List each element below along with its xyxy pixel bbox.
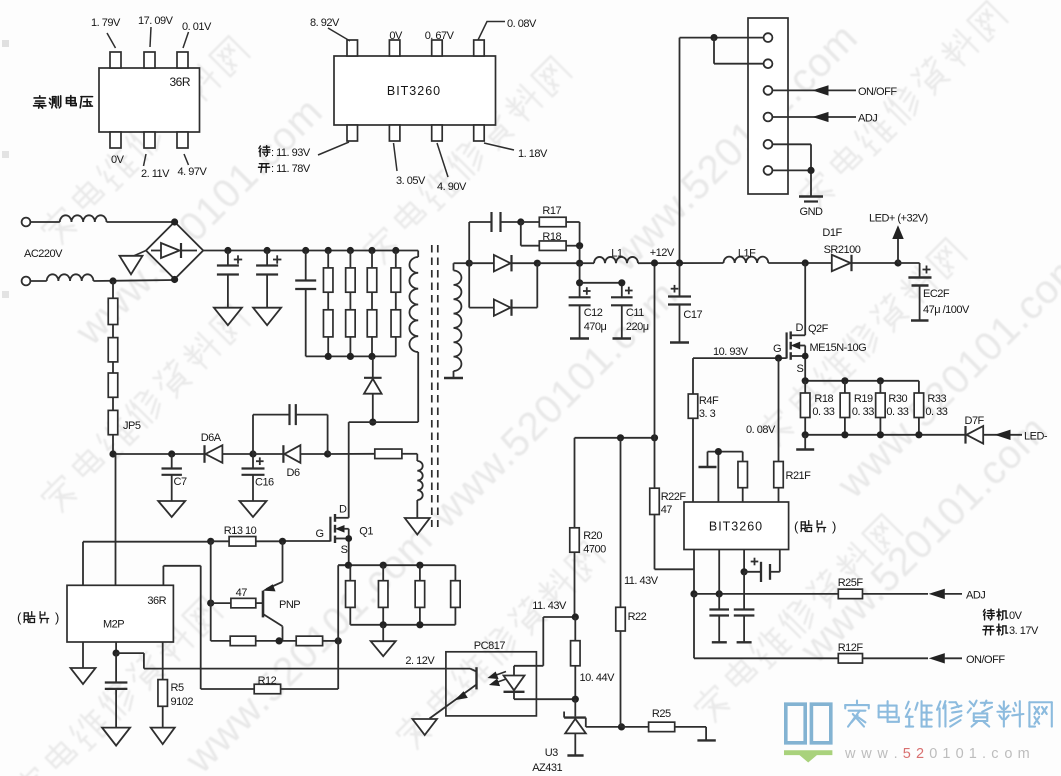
connector pin 6 xyxy=(764,166,773,175)
wire snubber to Q1 drain xyxy=(349,422,373,518)
label R18b xyxy=(814,393,833,405)
svg-text:3. 3: 3. 3 xyxy=(699,408,716,420)
wire r18 to rail xyxy=(579,246,581,264)
junction rail cap1 xyxy=(224,247,231,254)
AC terminal bottom xyxy=(22,277,31,286)
capacitor snub sec xyxy=(469,212,521,263)
junction rail rcol4 xyxy=(392,247,399,254)
svg-text:D6A: D6A xyxy=(201,432,222,444)
svg-text:R19: R19 xyxy=(854,393,873,405)
svg-text:S: S xyxy=(797,363,804,375)
label R21F xyxy=(786,470,812,482)
diode D6 xyxy=(253,445,300,463)
wire M2P pin3 dogleg to R12 xyxy=(163,566,200,689)
svg-text:36R: 36R xyxy=(169,75,190,89)
svg-text:m: m xyxy=(1018,746,1030,762)
svg-text:R13 10: R13 10 xyxy=(224,525,257,537)
resistor primary bank col4 top xyxy=(391,251,401,293)
label R22 xyxy=(628,611,647,623)
junction bridge top xyxy=(171,218,178,225)
voltage label 4.97V xyxy=(178,154,208,178)
label R20 xyxy=(583,530,602,542)
resistor R22 xyxy=(616,438,626,727)
junction bankq1 bot3 xyxy=(416,621,423,628)
bridge rectifier BD1 xyxy=(146,222,203,279)
junction ref node xyxy=(618,723,625,730)
diode D1F SR2100 xyxy=(832,255,898,271)
svg-text:4. 90V: 4. 90V xyxy=(437,181,467,193)
svg-text:: 11. 93V: : 11. 93V xyxy=(271,147,311,159)
svg-text:0. 01V: 0. 01V xyxy=(182,21,212,33)
svg-text:10. 93V: 10. 93V xyxy=(713,346,749,358)
wire +12V rail xyxy=(638,262,724,264)
junction sense t2 xyxy=(841,377,848,384)
resistor primary bank col3 bottom xyxy=(367,292,377,356)
junction vcc jp5 xyxy=(109,450,116,457)
label R17 xyxy=(542,205,561,217)
resistor primary bank col1 top xyxy=(323,251,333,293)
wire connector pin5 to gnd xyxy=(772,144,811,170)
ground M2P xyxy=(71,668,96,684)
label AC220V xyxy=(24,248,63,260)
ground secondary winding xyxy=(444,371,463,378)
pin BIT3260 bottom1 xyxy=(347,125,358,141)
label Q1 D xyxy=(339,504,347,516)
svg-text:ADJ: ADJ xyxy=(858,113,877,125)
voltage label 1.79V xyxy=(91,17,121,48)
resistor R22F xyxy=(650,438,694,570)
resistor JP5 xyxy=(108,397,118,454)
transformer T1 primary winding xyxy=(409,257,418,352)
resistor JP5 column r1 xyxy=(108,281,118,325)
label 10.93V xyxy=(713,346,749,358)
shunt regulator U3 AZ431 xyxy=(564,699,586,755)
logo url www.520101.com xyxy=(844,746,1030,762)
svg-text:R22: R22 xyxy=(628,611,647,623)
junction fb r22 xyxy=(617,434,624,441)
wire LED- output xyxy=(983,430,1022,439)
optocoupler PC817 box xyxy=(446,652,537,716)
svg-text:0. 33: 0. 33 xyxy=(812,406,834,418)
svg-text:.: . xyxy=(982,746,986,762)
label D1F xyxy=(822,227,842,239)
label AZ431 xyxy=(532,762,562,774)
label L1 xyxy=(611,248,623,260)
wire connector pin2 xyxy=(714,38,764,64)
label C16 xyxy=(255,477,274,489)
junction sense t3 xyxy=(877,377,884,384)
pin BIT3260 top1 xyxy=(347,40,358,56)
resistor R12F xyxy=(838,654,928,664)
label measured-voltage 实测电压 xyxy=(34,96,93,109)
wire M2P gnd pin xyxy=(82,642,84,668)
svg-text:2. 11V: 2. 11V xyxy=(141,168,170,180)
svg-text:+12V: +12V xyxy=(650,247,675,259)
svg-text:470μ: 470μ xyxy=(584,321,607,333)
label 3.3 xyxy=(699,408,716,420)
capacitor EC2F xyxy=(898,263,932,321)
svg-text:GND: GND xyxy=(800,206,824,218)
junction bank bottom2 xyxy=(347,353,354,360)
svg-text:D: D xyxy=(339,504,347,516)
junction sense s xyxy=(802,377,809,384)
svg-text:Q2F: Q2F xyxy=(808,323,829,335)
svg-text:R21F: R21F xyxy=(786,470,812,482)
ground bulk C-b xyxy=(253,308,281,326)
wire rect to main node xyxy=(537,262,579,264)
label C7 xyxy=(174,476,187,488)
svg-text:ADJ: ADJ xyxy=(966,590,985,602)
label R25F xyxy=(838,577,864,589)
svg-text:0. 33: 0. 33 xyxy=(925,406,947,418)
transistor Q2F mosfet xyxy=(787,263,809,381)
junction r17r18 right xyxy=(576,242,583,249)
svg-text:36R: 36R xyxy=(147,595,166,607)
logo book icon xyxy=(786,704,831,743)
ground bulk C-a xyxy=(214,308,242,326)
label 4700 xyxy=(583,544,606,556)
junction c12 top xyxy=(576,279,583,286)
svg-text:M2P: M2P xyxy=(103,619,124,631)
label 47f xyxy=(661,504,673,516)
resistor fb mid xyxy=(571,617,581,699)
wire M2P pin2 to vcc xyxy=(115,454,117,585)
transistor Q1 mosfet xyxy=(330,514,352,565)
page edge marks xyxy=(2,40,9,298)
voltage label 0.67V xyxy=(425,30,455,42)
logo green swoosh xyxy=(784,750,832,762)
junction bankq1 top2 xyxy=(380,562,387,569)
svg-text:9102: 9102 xyxy=(171,696,194,708)
label 11.43V right xyxy=(624,575,659,587)
svg-text:4700: 4700 xyxy=(583,544,606,556)
capacitor snubber bank xyxy=(295,251,316,357)
svg-text:0V: 0V xyxy=(1009,610,1023,622)
capacitor snubber across D6 xyxy=(253,404,328,454)
svg-text:3. 17V: 3. 17V xyxy=(1009,625,1039,637)
resistor R17 xyxy=(521,217,580,245)
svg-text:LED-: LED- xyxy=(1024,431,1048,443)
label 47u 100V xyxy=(923,304,970,316)
wire M2P pin1 to R13 xyxy=(83,542,211,586)
junction source S xyxy=(345,562,352,569)
junction source-feedback node xyxy=(335,637,342,644)
voltage label 0V pin2 xyxy=(389,30,403,42)
capacitor C11 xyxy=(580,283,633,339)
label R22F xyxy=(661,491,687,503)
label R30 xyxy=(888,393,907,405)
label D6 xyxy=(287,467,300,479)
junction rail snubcap xyxy=(302,247,309,254)
wire connector pin1 to +12V rail xyxy=(680,38,764,263)
wire pin2 top dogleg xyxy=(708,452,743,502)
label smd 贴片 left xyxy=(17,610,59,625)
arrow ONOFF out xyxy=(930,654,962,663)
junction sense b3 xyxy=(877,431,884,438)
svg-text:R25: R25 xyxy=(652,708,671,720)
voltage label 4.90V xyxy=(437,143,467,193)
junction c11 top xyxy=(618,279,625,286)
capacitor elec pinB3-4 xyxy=(744,550,780,583)
voltage label 3.05V xyxy=(394,143,426,187)
IC BIT3260 name xyxy=(387,84,441,98)
svg-text:17. 09V: 17. 09V xyxy=(138,15,174,27)
wire sense top rail xyxy=(805,380,919,382)
inductor L1F xyxy=(724,257,769,263)
label 11.43V mid xyxy=(532,600,567,612)
wire vcc to aux resistor xyxy=(328,453,375,455)
label smd 贴片 right xyxy=(794,519,836,534)
label 2.12V xyxy=(405,655,435,667)
connector CN1 body xyxy=(748,18,788,194)
connector pin 1 xyxy=(764,33,773,42)
svg-text:): ) xyxy=(55,610,59,625)
label R19 xyxy=(854,393,873,405)
label GND xyxy=(800,206,824,218)
junction led+ node xyxy=(894,259,901,266)
wire vcc rail xyxy=(113,453,205,455)
junction snubber node xyxy=(369,419,376,426)
svg-text:1. 79V: 1. 79V xyxy=(91,17,121,29)
connector pin 4 xyxy=(764,113,773,122)
wire gate network left vertical xyxy=(211,541,231,641)
wire secondary rail xyxy=(454,262,470,264)
svg-text:BIT3260: BIT3260 xyxy=(709,520,763,534)
wire source bank bottom rail xyxy=(350,624,455,626)
svg-text:10. 44V: 10. 44V xyxy=(580,672,616,684)
label M2P xyxy=(103,619,124,631)
diode D7F xyxy=(966,426,984,444)
svg-text:1: 1 xyxy=(969,746,977,762)
label D6A xyxy=(201,432,222,444)
svg-text:ON/OFF: ON/OFF xyxy=(966,654,1005,666)
label Q2F G xyxy=(773,343,781,355)
label ADJ xyxy=(858,113,877,125)
junction adj node xyxy=(690,590,697,597)
ground C16 xyxy=(240,501,267,517)
label Q2F D xyxy=(796,322,804,334)
wire fb to +12V rail xyxy=(654,263,656,438)
svg-text:L1: L1 xyxy=(611,248,623,260)
junction R13 right xyxy=(279,538,286,545)
resistor primary bank col3 top xyxy=(367,251,377,293)
svg-text:47: 47 xyxy=(661,504,673,516)
resistor R5 xyxy=(158,642,168,728)
junction sense b2 xyxy=(841,431,848,438)
resistor R25F xyxy=(838,589,928,599)
ground C7 xyxy=(158,501,185,517)
label ON/OFF xyxy=(858,86,897,98)
label 470u xyxy=(584,321,607,333)
svg-text:EC2F: EC2F xyxy=(923,288,950,300)
svg-text:11. 43V: 11. 43V xyxy=(624,575,659,587)
svg-text:0. 33: 0. 33 xyxy=(886,406,908,418)
junction R13 left xyxy=(207,538,214,545)
svg-text:JP5: JP5 xyxy=(123,420,141,432)
label R5 xyxy=(171,682,184,694)
resistor primary bank col1 bottom xyxy=(323,292,333,356)
connector pin 2 xyxy=(764,59,773,68)
wire snubber to primary winding bottom xyxy=(373,352,418,422)
junction az431 node xyxy=(572,696,579,703)
svg-text:Q1: Q1 xyxy=(359,526,373,538)
label 36R on M2P xyxy=(147,595,166,607)
label R13 10 xyxy=(224,525,257,537)
resistor 47 base xyxy=(211,598,263,608)
transformer T1 secondary winding xyxy=(454,263,462,371)
svg-text:C7: C7 xyxy=(174,476,187,488)
junction PNP collector xyxy=(276,637,283,644)
resistor R18 0.33 xyxy=(800,381,810,435)
label R12 xyxy=(258,675,277,687)
transistor PNP xyxy=(263,541,283,641)
AC terminal top xyxy=(22,218,31,227)
wire AZ431 ref xyxy=(586,718,622,727)
inductor L1 xyxy=(580,257,638,263)
svg-text:L1F: L1F xyxy=(738,248,756,260)
pin BIT3260 bottom4 xyxy=(474,125,485,141)
svg-text:R12: R12 xyxy=(258,675,277,687)
ground R5 xyxy=(151,728,175,745)
label R19 val xyxy=(852,406,874,418)
junction vcc c16 xyxy=(249,450,256,457)
label R33 xyxy=(927,393,946,405)
junction rect out xyxy=(534,260,541,267)
junction bankq1 bot2 xyxy=(380,621,387,628)
junction rail rcol1 xyxy=(325,247,332,254)
pin BIT3260 top4 xyxy=(474,40,485,56)
capacitor filter F2 xyxy=(734,572,755,643)
junction rail cap2 xyxy=(264,247,271,254)
voltage label 17.09V xyxy=(138,15,174,47)
diode snubber clamp xyxy=(364,356,382,422)
resistor pin3 top xyxy=(738,452,748,502)
junction rail rcol2 xyxy=(347,247,354,254)
capacitor C17 xyxy=(668,263,691,343)
label LED+ +32V xyxy=(869,213,928,225)
svg-text:D1F: D1F xyxy=(822,227,842,239)
svg-text:G: G xyxy=(773,343,781,355)
label EC2F xyxy=(923,288,950,300)
ground source bank xyxy=(371,625,396,656)
voltage label 0V xyxy=(111,154,125,166)
wire M2P pinB node xyxy=(115,642,117,653)
opto light arrows xyxy=(489,672,508,686)
junction pinB2 node xyxy=(716,590,723,597)
diode rectifier top xyxy=(469,255,537,271)
resistor lower row a xyxy=(230,636,296,646)
junction bank bottom3 xyxy=(368,353,375,360)
ground GND connector xyxy=(799,197,823,202)
svg-text:R30: R30 xyxy=(888,393,907,405)
svg-text:G: G xyxy=(316,528,324,540)
capacitor C7 xyxy=(162,454,182,501)
pin 36R bottom1 xyxy=(110,132,121,148)
resistor R13 xyxy=(211,537,283,547)
label 220u xyxy=(626,321,649,333)
svg-text:D6: D6 xyxy=(287,467,300,479)
label +12V xyxy=(650,247,675,259)
capacitor filter F1 xyxy=(709,594,729,642)
resistor lower row b xyxy=(296,636,338,646)
inductor line-filter bottom xyxy=(30,274,93,281)
resistor JP5 column r3 xyxy=(108,362,118,397)
svg-text:R20: R20 xyxy=(583,530,602,542)
voltage label 8.92V xyxy=(310,17,350,41)
svg-text:0. 08V: 0. 08V xyxy=(507,18,537,30)
LED PC817 xyxy=(504,666,576,699)
junction rail c17 xyxy=(676,259,683,266)
ground PC817 emitter xyxy=(412,719,437,735)
junction connector gnd xyxy=(807,167,814,174)
svg-text:0. 67V: 0. 67V xyxy=(425,30,455,42)
wire feedback top rail xyxy=(575,437,655,439)
label SR2100 xyxy=(824,244,861,256)
svg-text:AC220V: AC220V xyxy=(24,248,63,260)
capacitor M2P filter xyxy=(105,653,128,728)
diode D6A xyxy=(205,445,223,463)
svg-text:0V: 0V xyxy=(111,154,125,166)
capacitor bulk C-a xyxy=(217,251,242,308)
junction pinB3 cap xyxy=(741,568,748,575)
IC BIT3260 callout body xyxy=(334,56,496,125)
svg-text:: 11. 78V: : 11. 78V xyxy=(271,163,311,175)
svg-text:PNP: PNP xyxy=(279,599,300,611)
junction vcc c7 xyxy=(168,450,175,457)
connector pin 3 xyxy=(764,86,773,95)
pin 36R top2 xyxy=(144,52,155,68)
svg-text:w: w xyxy=(844,746,856,762)
IC 36R name xyxy=(169,75,190,89)
wire D6A to C16 xyxy=(222,453,253,455)
label C11 xyxy=(626,307,644,319)
label R12F xyxy=(838,642,864,654)
label R18sec xyxy=(542,231,561,243)
label 9102 xyxy=(171,696,194,708)
label R33 val xyxy=(925,406,947,418)
junction bank bottom1 xyxy=(325,353,332,360)
wire pinB1 down xyxy=(693,550,695,594)
wire AC bottom to bridge xyxy=(93,280,174,281)
junction bridge bottom xyxy=(171,276,178,283)
wire LED anode to 11.43V node xyxy=(514,617,575,666)
voltage label 0.01V xyxy=(182,21,212,48)
pin BIT3260 bottom2 xyxy=(389,125,400,141)
pin 36R top3 xyxy=(177,52,188,68)
svg-text:C17: C17 xyxy=(683,309,702,321)
svg-text:2: 2 xyxy=(916,746,924,762)
junction rail rcol3 xyxy=(368,247,375,254)
resistor R30 0.33 xyxy=(876,381,886,435)
wire primary bank bottom rail xyxy=(306,355,396,357)
label R18b val xyxy=(812,406,834,418)
ground sense bank xyxy=(796,435,814,450)
junction pin2 top xyxy=(715,448,722,455)
label Q2F S xyxy=(797,363,804,375)
resistor R19 0.33 xyxy=(840,381,850,435)
voltage label 0.08V xyxy=(478,18,537,40)
wire L1F to D1F xyxy=(768,262,832,264)
svg-text:ON/OFF: ON/OFF xyxy=(858,86,897,98)
svg-text:3. 05V: 3. 05V xyxy=(396,175,426,187)
svg-text:0. 08V: 0. 08V xyxy=(746,424,776,436)
svg-text:R25F: R25F xyxy=(838,577,864,589)
svg-text:11. 43V: 11. 43V xyxy=(532,600,567,612)
resistor primary bank col2 bottom xyxy=(346,292,356,356)
label 47 xyxy=(236,587,248,599)
pin BIT3260 top3 xyxy=(432,40,443,56)
svg-text:0. 33: 0. 33 xyxy=(852,406,874,418)
